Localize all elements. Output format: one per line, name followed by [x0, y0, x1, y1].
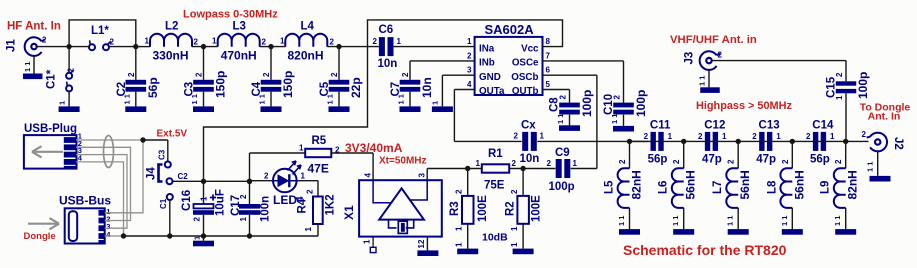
- wire: [738, 140, 792, 142]
- svg-text:L7: L7: [712, 181, 724, 194]
- svg-text:5: 5: [546, 80, 551, 89]
- svg-text:100p: 100p: [634, 90, 648, 117]
- wire: [791, 141, 793, 229]
- capacitor C15: [826, 72, 871, 100]
- svg-text:L3: L3: [233, 21, 246, 33]
- connector USB-Plug: [24, 123, 77, 169]
- svg-text:Ant. In: Ant. In: [868, 111, 901, 123]
- junction: [790, 139, 795, 144]
- wire: [711, 61, 846, 82]
- svg-text:2: 2: [613, 95, 622, 100]
- svg-text:1: 1: [397, 37, 402, 46]
- svg-text:1: 1: [830, 132, 835, 141]
- wire: [394, 46, 475, 48]
- svg-text:2: 2: [195, 72, 204, 77]
- svg-text:Ext.5V: Ext.5V: [157, 129, 188, 140]
- svg-text:X1: X1: [342, 205, 356, 220]
- svg-text:1: 1: [573, 159, 578, 168]
- svg-text:2: 2: [781, 159, 790, 164]
- jumper J4: [146, 165, 163, 182]
- wire: [260, 46, 286, 48]
- svg-text:L1*: L1*: [91, 25, 109, 37]
- svg-text:LED: LED: [273, 193, 297, 207]
- net label: Lowpass 0-30MHz: [183, 9, 278, 21]
- connector J2: [862, 130, 904, 151]
- wire: [845, 141, 847, 229]
- arrow USB-Plug: [32, 146, 63, 157]
- svg-text:4: 4: [467, 80, 472, 89]
- junction: [247, 179, 252, 184]
- svg-text:C13: C13: [759, 120, 780, 132]
- svg-text:C6: C6: [379, 24, 394, 36]
- junction: [167, 233, 172, 238]
- svg-text:C9: C9: [555, 147, 570, 159]
- svg-text:82nH: 82nH: [846, 170, 860, 199]
- svg-text:Lowpass 0-30MHz: Lowpass 0-30MHz: [183, 9, 278, 21]
- svg-text:2: 2: [510, 189, 519, 194]
- wire: [467, 169, 469, 249]
- svg-text:C15: C15: [826, 76, 838, 98]
- svg-text:100E: 100E: [477, 195, 489, 222]
- svg-text:2: 2: [834, 159, 843, 164]
- svg-text:2: 2: [752, 132, 757, 141]
- wire: [543, 90, 570, 126]
- svg-text:3: 3: [467, 66, 472, 75]
- wire: [537, 140, 648, 142]
- wire: [203, 236, 205, 241]
- junction: [268, 44, 273, 49]
- ground: [329, 106, 350, 112]
- capacitor C16: [181, 189, 227, 221]
- title: Schematic for the RT820: [623, 242, 787, 258]
- ground: [700, 87, 720, 93]
- svg-text:L2: L2: [165, 21, 178, 33]
- svg-text:82nH: 82nH: [630, 170, 644, 199]
- svg-text:2: 2: [127, 72, 136, 77]
- inductor L3: [212, 21, 267, 63]
- svg-text:1: 1: [200, 196, 209, 201]
- wire: [522, 169, 524, 249]
- wire: [846, 140, 869, 142]
- svg-text:USB-Bus: USB-Bus: [59, 194, 111, 208]
- inductor L1*: [89, 25, 115, 50]
- svg-text:SA602A: SA602A: [485, 22, 535, 37]
- svg-text:2: 2: [644, 132, 649, 141]
- svg-text:1: 1: [776, 132, 781, 141]
- ground: [193, 106, 214, 112]
- svg-text:2: 2: [727, 159, 736, 164]
- svg-text:10dB: 10dB: [482, 232, 508, 244]
- svg-text:1 1: 1 1: [326, 94, 335, 104]
- connector J1: [6, 36, 48, 56]
- pin X1-1 nc: [363, 237, 377, 253]
- arrow USB-Bus: [28, 218, 59, 229]
- pin numbers U1 right: [546, 37, 551, 89]
- svg-text:2: 2: [42, 36, 47, 45]
- pin labels J2-1: [866, 162, 875, 172]
- svg-text:56nH: 56nH: [738, 170, 752, 199]
- svg-text:L6: L6: [658, 181, 670, 194]
- capacitor C3: [184, 71, 228, 105]
- svg-text:Highpass > 50MHz: Highpass > 50MHz: [696, 100, 792, 112]
- wire: [684, 140, 739, 142]
- svg-text:R2: R2: [505, 201, 517, 216]
- ground: [457, 249, 478, 255]
- svg-text:1: 1: [239, 217, 248, 222]
- capacitor C6: [373, 24, 402, 70]
- junction Ext.5V: [140, 137, 145, 142]
- pin label 12: [417, 239, 426, 248]
- wire: [338, 47, 340, 107]
- svg-text:C1: C1: [159, 198, 168, 209]
- svg-text:1: 1: [540, 132, 545, 141]
- svg-text:2: 2: [618, 159, 627, 164]
- svg-text:2: 2: [262, 72, 271, 77]
- svg-text:75E: 75E: [484, 180, 505, 192]
- inductor L8: [766, 159, 806, 226]
- svg-text:J4: J4: [146, 167, 158, 180]
- capacitor C14: [806, 120, 835, 166]
- net label: HF Ant. In: [7, 21, 61, 33]
- capacitor C11: [644, 120, 673, 166]
- svg-text:R1: R1: [488, 148, 503, 160]
- inductor L2: [145, 21, 199, 63]
- ground: [782, 229, 803, 235]
- svg-text:1: 1: [455, 242, 464, 247]
- svg-text:J3: J3: [684, 52, 696, 65]
- svg-text:100p: 100p: [549, 181, 575, 193]
- svg-text:7: 7: [546, 51, 551, 60]
- pad J4-C1: [159, 194, 173, 209]
- svg-text:OUTb: OUTb: [512, 86, 539, 97]
- ground: [432, 106, 453, 112]
- svg-text:2: 2: [193, 217, 202, 222]
- ground: [559, 125, 580, 131]
- svg-text:1 1: 1 1: [698, 76, 707, 86]
- wire: [124, 224, 319, 236]
- svg-text:10n: 10n: [420, 77, 434, 98]
- junction: [520, 166, 525, 171]
- svg-text:1 1: 1 1: [397, 94, 406, 104]
- svg-text:C3: C3: [158, 149, 167, 160]
- svg-text:100p: 100p: [580, 90, 594, 117]
- svg-text:1: 1: [455, 226, 464, 231]
- svg-text:2: 2: [835, 72, 844, 77]
- wire Vcc net: [204, 20, 563, 181]
- svg-text:2: 2: [514, 132, 519, 141]
- svg-text:56p: 56p: [648, 153, 668, 165]
- svg-text:2: 2: [373, 37, 378, 46]
- svg-text:1: 1: [835, 95, 844, 100]
- ground: [870, 176, 891, 182]
- wire: [249, 153, 251, 236]
- net label: 3V3/40mA: [345, 141, 403, 155]
- svg-text:C16: C16: [181, 190, 193, 211]
- svg-text:470nH: 470nH: [221, 49, 257, 63]
- wire: [143, 140, 168, 162]
- svg-text:2: 2: [194, 38, 199, 47]
- ground: [125, 106, 146, 112]
- svg-text:Dongle: Dongle: [24, 231, 56, 242]
- resistor R2: [505, 189, 543, 247]
- wire: [136, 46, 150, 48]
- junction: [133, 44, 138, 49]
- wire: [192, 46, 218, 48]
- wire: [683, 141, 685, 229]
- wire: [203, 181, 205, 236]
- op-amp U1 SA602A: [475, 22, 543, 97]
- pin label 1: [431, 101, 440, 105]
- wire: [69, 46, 136, 48]
- junction: [121, 233, 126, 238]
- pin numbers U1 left: [467, 37, 472, 89]
- svg-text:47p: 47p: [756, 153, 776, 165]
- resistor R5: [299, 135, 340, 176]
- wire: [543, 61, 624, 126]
- value label 10dB: [482, 232, 508, 244]
- oscillator X1: [342, 173, 442, 237]
- ground: [59, 106, 80, 112]
- svg-text:1: 1: [476, 159, 481, 168]
- svg-text:56p: 56p: [146, 77, 160, 98]
- svg-text:1 1: 1 1: [556, 114, 565, 124]
- wire: [629, 141, 631, 229]
- ground: [613, 126, 634, 132]
- wire: [327, 46, 379, 48]
- capacitor Cx: [514, 120, 545, 166]
- svg-text:150p: 150p: [214, 71, 228, 98]
- inductor L5: [604, 159, 644, 226]
- svg-text:1: 1: [510, 242, 519, 247]
- ground: [23, 74, 43, 80]
- svg-text:1: 1: [280, 37, 285, 46]
- svg-text:2: 2: [547, 159, 552, 168]
- svg-text:GND: GND: [479, 72, 501, 83]
- ground: [673, 229, 694, 235]
- svg-text:L4: L4: [301, 21, 315, 33]
- wire: [203, 47, 205, 107]
- svg-text:2: 2: [401, 72, 410, 77]
- svg-text:4: 4: [364, 173, 373, 178]
- svg-text:2: 2: [239, 194, 248, 199]
- wire: [708, 70, 710, 87]
- svg-text:1: 1: [722, 132, 727, 141]
- capacitor C9: [547, 147, 578, 193]
- ground: [261, 106, 282, 112]
- junction: [681, 139, 686, 144]
- wire: [877, 151, 879, 176]
- svg-text:56nH: 56nH: [792, 170, 806, 199]
- svg-text:1: 1: [58, 101, 67, 105]
- wire: [845, 93, 847, 141]
- svg-text:2: 2: [512, 159, 517, 168]
- svg-text:Vcc: Vcc: [521, 43, 539, 54]
- ground: [513, 249, 534, 255]
- svg-text:22p: 22p: [349, 77, 363, 98]
- svg-text:820nH: 820nH: [288, 49, 324, 63]
- svg-text:6: 6: [546, 66, 551, 75]
- svg-text:L8: L8: [766, 180, 778, 194]
- capacitor C13: [752, 120, 781, 166]
- capacitor C5: [319, 72, 363, 105]
- pad J4-C2: [167, 172, 189, 184]
- net label: VHF/UHF Ant. in: [670, 34, 757, 46]
- capacitor C2: [116, 72, 160, 105]
- svg-text:Schematic for the RT820: Schematic for the RT820: [623, 242, 787, 258]
- junction: [201, 44, 206, 49]
- svg-text:2: 2: [559, 95, 568, 100]
- resistor R4: [297, 189, 337, 232]
- junction: [465, 166, 470, 171]
- svg-text:1: 1: [510, 226, 519, 231]
- wire: [250, 180, 273, 182]
- svg-text:1 1: 1 1: [726, 216, 735, 226]
- svg-text:OSCb: OSCb: [511, 72, 538, 83]
- svg-text:100E: 100E: [531, 195, 543, 222]
- wire: [250, 152, 306, 154]
- svg-text:2: 2: [67, 68, 76, 73]
- net label: Highpass > 50MHz: [696, 100, 792, 112]
- wire: [454, 90, 521, 142]
- inductor L7: [712, 159, 752, 226]
- svg-text:1: 1: [363, 239, 372, 244]
- junction: [201, 233, 206, 238]
- svg-text:1: 1: [467, 37, 472, 46]
- net label: To Dongle Ant. In: [860, 102, 911, 123]
- wire: [427, 169, 482, 181]
- wire: [34, 47, 69, 74]
- svg-text:1: 1: [212, 37, 217, 46]
- svg-text:2: 2: [467, 51, 472, 60]
- wire: [543, 75, 597, 168]
- ground: [193, 241, 214, 247]
- svg-text:10uF: 10uF: [215, 189, 227, 216]
- svg-text:2: 2: [698, 132, 703, 141]
- ground: [400, 106, 421, 112]
- junction: [736, 139, 741, 144]
- svg-text:R5: R5: [312, 135, 327, 147]
- capacitor C8: [549, 90, 595, 124]
- svg-text:1: 1: [431, 101, 440, 105]
- svg-text:1: 1: [668, 132, 673, 141]
- svg-text:1K2: 1K2: [325, 194, 337, 215]
- svg-text:1: 1: [145, 37, 150, 46]
- pin label 1: [193, 236, 202, 240]
- wire: [442, 75, 474, 106]
- inductor L6: [658, 159, 698, 226]
- ground: [728, 229, 749, 235]
- ground: [417, 250, 438, 256]
- svg-text:2: 2: [306, 189, 315, 194]
- svg-text:1: 1: [301, 172, 306, 181]
- wire bypass over L1*: [69, 20, 136, 47]
- svg-text:8: 8: [546, 37, 551, 46]
- svg-text:2: 2: [806, 132, 811, 141]
- pin numbers USB-Bus: [106, 207, 111, 239]
- junction: [247, 179, 252, 184]
- svg-text:Cx: Cx: [521, 120, 536, 132]
- svg-text:INa: INa: [479, 43, 495, 54]
- resistor R3: [449, 189, 489, 247]
- svg-text:L9: L9: [820, 181, 832, 194]
- wire: [410, 61, 475, 107]
- wire: [297, 181, 318, 197]
- svg-text:1 1: 1 1: [866, 162, 875, 172]
- junction: [201, 179, 206, 184]
- pad J4-C3: [158, 149, 171, 167]
- svg-text:100p: 100p: [856, 72, 870, 99]
- inductor L4: [280, 21, 335, 63]
- svg-text:150p: 150p: [281, 71, 295, 98]
- svg-text:HF Ant. In: HF Ant. In: [7, 21, 61, 33]
- svg-text:1 1: 1 1: [671, 216, 680, 226]
- pin labels J3-1: [698, 76, 707, 86]
- wire: [135, 47, 137, 107]
- capacitor C1*: [46, 68, 76, 92]
- svg-text:56p: 56p: [810, 153, 830, 165]
- svg-text:OSCe: OSCe: [512, 58, 539, 69]
- wire USB cable: [76, 140, 143, 236]
- net label: Dongle: [24, 231, 56, 242]
- svg-text:C1*: C1*: [46, 69, 58, 89]
- wire: [509, 168, 555, 170]
- svg-text:1 1: 1 1: [190, 94, 199, 104]
- pin label C1*-1: [58, 101, 67, 105]
- svg-text:1 1: 1 1: [23, 62, 32, 72]
- net label: Xt=50MHz: [379, 156, 427, 167]
- capacitor C4: [251, 71, 295, 105]
- svg-text:1 1: 1 1: [258, 94, 267, 104]
- junction: [627, 139, 632, 144]
- junction: [336, 44, 341, 49]
- pin labels J1-1: [23, 62, 32, 72]
- svg-text:10n: 10n: [520, 153, 540, 165]
- svg-text:R3: R3: [449, 201, 461, 216]
- svg-text:2: 2: [264, 172, 269, 181]
- cable ellipse: [104, 136, 114, 168]
- capacitor C10: [603, 90, 648, 124]
- capacitor C17: [230, 194, 272, 222]
- svg-text:J2: J2: [892, 137, 904, 150]
- svg-text:2: 2: [862, 130, 867, 139]
- wire 5V rail: [173, 180, 250, 182]
- capacitor C12: [698, 120, 727, 166]
- svg-text:1 1: 1 1: [617, 216, 626, 226]
- junction: [247, 233, 252, 238]
- svg-text:3: 3: [418, 173, 427, 178]
- svg-text:R4: R4: [297, 198, 309, 213]
- junction: [843, 139, 848, 144]
- svg-text:12: 12: [417, 239, 426, 248]
- capacitor C7: [390, 72, 434, 105]
- svg-text:1 1: 1 1: [122, 94, 131, 104]
- svg-text:2: 2: [718, 51, 723, 60]
- wire: [270, 47, 272, 107]
- svg-text:2: 2: [672, 159, 681, 164]
- svg-text:1: 1: [304, 227, 313, 232]
- svg-text:2: 2: [330, 72, 339, 77]
- wire: [737, 141, 739, 229]
- svg-text:Xt=50MHz: Xt=50MHz: [379, 156, 427, 167]
- ground: [835, 229, 856, 235]
- wire: [630, 140, 684, 142]
- net label: Ext.5V: [157, 129, 188, 140]
- svg-text:VHF/UHF Ant. in: VHF/UHF Ant. in: [670, 34, 757, 46]
- svg-text:INb: INb: [479, 58, 495, 69]
- svg-text:2: 2: [110, 38, 115, 47]
- svg-text:1 1: 1 1: [833, 216, 842, 226]
- svg-text:L5: L5: [604, 180, 616, 194]
